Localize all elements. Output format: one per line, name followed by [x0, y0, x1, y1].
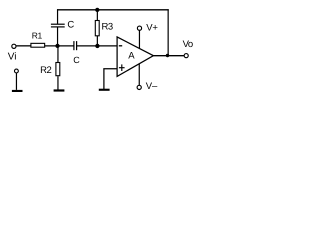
svg-text:C: C [67, 20, 74, 31]
svg-text:C: C [73, 55, 80, 65]
svg-text:R3: R3 [102, 22, 113, 33]
top feedback rail wire [57, 9, 169, 11]
op-amp minus sign [119, 45, 122, 47]
svg-text:Vo: Vo [183, 39, 193, 50]
wire Vi to R1 [16, 45, 31, 47]
capacitor C1 (vertical feedback cap) plates [51, 24, 65, 27]
wire reference terminal to ground [15, 73, 17, 90]
output terminal Vo [184, 54, 188, 58]
wire op-amp plus input to ground corner [104, 69, 117, 89]
terminal circle V+ [137, 26, 141, 30]
wire C2 to op-amp inverting input [77, 45, 117, 47]
ground G2 bar [99, 89, 110, 91]
svg-text:A: A [128, 51, 135, 62]
op-amp plus sign [119, 64, 125, 71]
wire R3 down to node B [96, 36, 98, 46]
node output junction dot [166, 54, 169, 57]
wire V+ pin [138, 30, 140, 48]
svg-text:Vi: Vi [8, 52, 17, 63]
node A junction dot [55, 44, 59, 48]
ground G1 bar [54, 89, 65, 91]
capacitor C2 (series cap) plates [74, 41, 77, 50]
node B junction dot [95, 44, 99, 48]
wire output node up to top rail [167, 9, 169, 55]
svg-text:V+: V+ [146, 22, 158, 33]
terminal circle V- [137, 85, 141, 89]
resistor R2 [56, 63, 60, 76]
svg-text:R2: R2 [40, 65, 51, 76]
node top of R3 junction dot [95, 8, 99, 12]
wire node A up to capacitor C1 [57, 27, 59, 46]
wire V- pin [138, 64, 140, 85]
wire C1 up to top rail [57, 9, 59, 24]
svg-text:R1: R1 [32, 31, 43, 41]
ground G3 bar [12, 90, 23, 92]
bottom-left reference terminal [15, 69, 19, 73]
wire top rail down to R3 [96, 10, 98, 21]
op-amp U1 triangle [117, 37, 153, 77]
wire node A down to R2 [57, 46, 59, 62]
wire R1 to node A [45, 45, 74, 47]
input terminal Vi [12, 44, 16, 48]
wire R2 down to ground [57, 76, 59, 89]
wire op-amp output [153, 55, 184, 57]
resistor R1 [31, 43, 45, 47]
svg-text:V–: V– [146, 81, 158, 92]
resistor R3 [95, 21, 99, 36]
